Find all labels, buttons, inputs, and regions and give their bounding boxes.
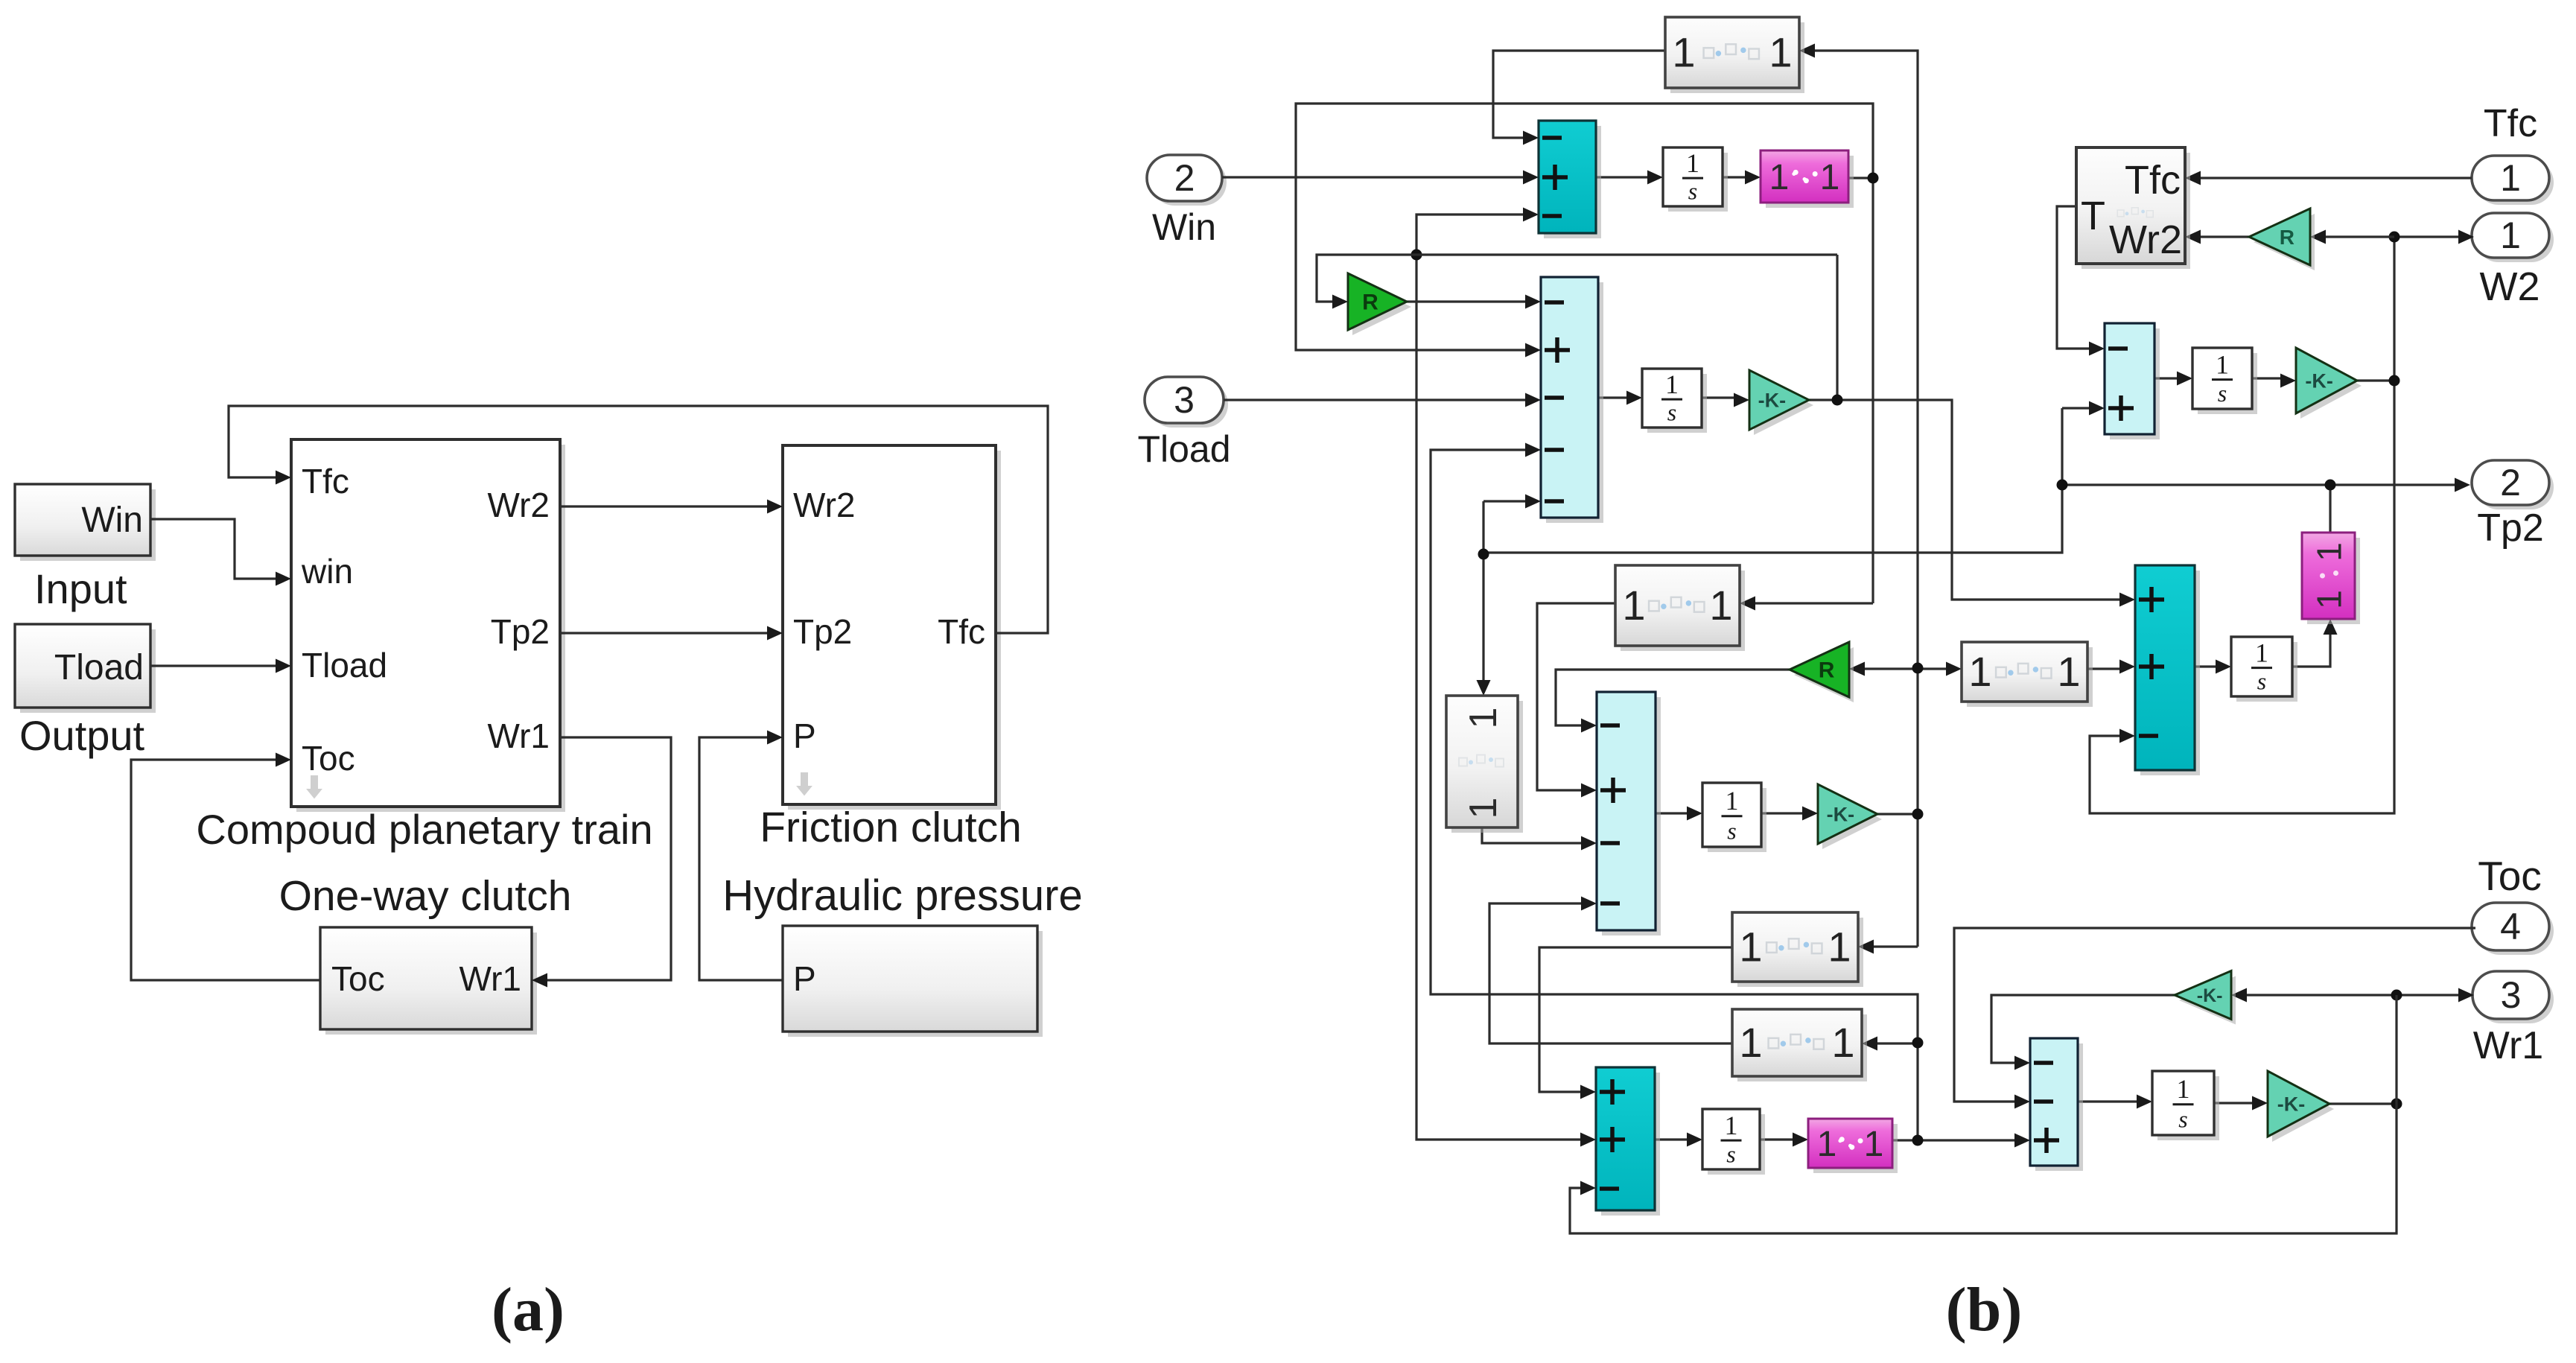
svg-text:1: 1 bbox=[1739, 924, 1762, 970]
wire sum C output to integrator D bbox=[2195, 665, 2219, 667]
svg-text:Tfc: Tfc bbox=[938, 612, 985, 651]
svg-text:Tp2: Tp2 bbox=[2477, 506, 2544, 550]
magenta block M3 vertical bbox=[2307, 538, 2360, 624]
svg-text:-K-: -K- bbox=[2277, 1093, 2305, 1115]
svg-text:1: 1 bbox=[1817, 1125, 1837, 1164]
svg-text:(b): (b) bbox=[1946, 1275, 2023, 1344]
svg-text:win: win bbox=[301, 552, 353, 591]
wire Tp2 planetary to friction clutch bbox=[560, 632, 771, 634]
wire port 1 Tfc to subsystem Tfc input bbox=[2197, 177, 2472, 179]
gain R1 (green, right) bbox=[1352, 279, 1411, 335]
svg-text:1: 1 bbox=[1864, 1125, 1884, 1164]
wire gain -K-5 output to sum F input 1 bbox=[1991, 995, 2175, 1063]
svg-text:Friction clutch: Friction clutch bbox=[760, 804, 1022, 851]
svg-text:1: 1 bbox=[1725, 1111, 1738, 1140]
block Tload (Output source) bbox=[20, 629, 156, 713]
svg-text:One-way clutch: One-way clutch bbox=[279, 872, 572, 920]
sum B (light cyan, 5 inputs) bbox=[1546, 282, 1603, 523]
svg-text:Tfc: Tfc bbox=[2125, 158, 2181, 203]
svg-text:1: 1 bbox=[2057, 648, 2080, 695]
wire -K-1 output up to y342 net and right to sum C input 1 bbox=[1809, 400, 2123, 600]
wire sum A output to integrator bbox=[1596, 176, 1651, 178]
wire P Hydraulic pressure to friction clutch bbox=[699, 737, 783, 980]
svg-text:P: P bbox=[793, 717, 816, 755]
wire TF2 output to sum C input 2 bbox=[2087, 667, 2123, 670]
junction -K-3 output on W1 net bbox=[1912, 809, 1924, 820]
block One-way clutch (Toc/Wr1) bbox=[325, 933, 537, 1035]
wire vertical x1902 down to sum D input 2 bbox=[1416, 255, 1584, 1140]
svg-text:1: 1 bbox=[1739, 1019, 1762, 1066]
svg-text:-K-: -K- bbox=[2305, 369, 2332, 392]
wire sum F output to integrator G bbox=[2078, 1100, 2140, 1102]
junction magenta2 net at TF4 branch bbox=[1912, 1038, 1924, 1049]
junction x3218 top bbox=[2391, 990, 2402, 1001]
sum CC (light cyan, 2 inputs) bbox=[2110, 328, 2160, 439]
wire port Win to sum A bbox=[1222, 176, 1527, 178]
svg-text:Wr2: Wr2 bbox=[793, 486, 856, 524]
wire gain -K-4 output to x3218 bbox=[2329, 1102, 2397, 1105]
junction x3215 top bbox=[2389, 232, 2400, 243]
svg-text:s: s bbox=[2218, 380, 2227, 407]
gain R2 (green, left) bbox=[1794, 647, 1854, 702]
wire Tp2 net x1992 vertical: to sum B input 5 and rotated TF input bbox=[1482, 501, 1484, 684]
svg-text:3: 3 bbox=[2501, 974, 2522, 1016]
svg-text:4: 4 bbox=[2500, 906, 2521, 947]
svg-text:-K-: -K- bbox=[1758, 389, 1786, 411]
magenta block M2 bbox=[1813, 1124, 1898, 1173]
svg-text:1: 1 bbox=[1769, 158, 1790, 197]
svg-text:Wr1: Wr1 bbox=[459, 959, 522, 998]
transfer block TF vertical bbox=[1451, 701, 1523, 833]
gain -K-2 (teal, right) bbox=[2300, 353, 2362, 419]
wire TF mid output down to sum E input 2 bbox=[1537, 603, 1615, 790]
port 3 Tload bbox=[1149, 381, 1228, 428]
wire x3218 to port 3 Wr1 bbox=[2397, 994, 2462, 996]
integrator 1/s D bbox=[2236, 642, 2297, 702]
wire integrator F to magenta 2 bbox=[1760, 1138, 1796, 1140]
wire x3218 to gain -K-5 input bbox=[2243, 994, 2397, 996]
integrator 1/s C bbox=[2198, 353, 2257, 414]
wire TF1 output to sum A input 1 bbox=[1493, 51, 1665, 138]
wire x2515 vertical net: up to y139 then to sum B input 2 bbox=[1296, 104, 1873, 603]
svg-text:Win: Win bbox=[1152, 206, 1216, 248]
svg-text:Toc: Toc bbox=[2478, 853, 2542, 899]
wire sum D output to integrator F bbox=[1655, 1138, 1691, 1140]
svg-text:P: P bbox=[793, 959, 816, 998]
sum E (light cyan, 4 inputs) bbox=[1602, 697, 1661, 935]
wire integrator A to magenta 1 bbox=[1723, 176, 1749, 178]
svg-text:Tload: Tload bbox=[1137, 428, 1230, 470]
wire port 4 Toc to sum F input 2 bbox=[1954, 928, 2475, 1102]
wire gain -K-2 output to x3215 bbox=[2357, 379, 2394, 381]
transfer block TF1 bbox=[1670, 22, 1804, 93]
transfer block TF3 bbox=[1737, 918, 1863, 987]
wire subsystem T output to sum CC input 1 bbox=[2057, 206, 2093, 349]
integrator 1/s F bbox=[1708, 1114, 1765, 1175]
wire Tfc feedback from Friction clutch to planetary Tfc bbox=[229, 406, 1048, 633]
wire y342 horizontal to gain R1 input bbox=[1317, 255, 1837, 302]
junction W1/R2/TF2 bbox=[1912, 663, 1924, 674]
wire sum E output to integrator E bbox=[1656, 812, 1691, 814]
junction Tp2 net x1992 bbox=[1478, 549, 1489, 560]
wire gain R2 output to sum E input 1 bbox=[1556, 670, 1790, 725]
magenta block M1 bbox=[1766, 156, 1854, 208]
transfer block TF mid bbox=[1621, 571, 1745, 651]
svg-text:1: 1 bbox=[1462, 798, 1505, 819]
svg-text:Tp2: Tp2 bbox=[793, 612, 852, 651]
sum D (dark teal, 3 inputs) bbox=[1601, 1073, 1660, 1216]
gain -K-5 (teal, left) bbox=[2179, 976, 2236, 1025]
port 3 Wr1 bbox=[2477, 976, 2554, 1023]
svg-text:1: 1 bbox=[1462, 708, 1505, 729]
svg-text:Tload: Tload bbox=[302, 646, 387, 684]
svg-text:s: s bbox=[2257, 667, 2266, 694]
svg-text:1: 1 bbox=[2255, 638, 2268, 668]
svg-text:1: 1 bbox=[2177, 1074, 2190, 1104]
svg-text:s: s bbox=[1726, 1140, 1735, 1167]
wire vertical x1902 net (y342) to sum A input 3 bbox=[1416, 215, 1527, 255]
svg-text:1: 1 bbox=[2500, 215, 2521, 256]
svg-text:1: 1 bbox=[1665, 369, 1679, 399]
svg-text:1: 1 bbox=[1968, 648, 1991, 695]
wire Tp2 net left from junction to vertical x2769 bbox=[2062, 483, 2330, 486]
svg-text:1: 1 bbox=[2500, 157, 2521, 199]
wire x3218 down and around to sum D input 3 bbox=[1570, 995, 2397, 1233]
subsystem Friction clutch bbox=[788, 451, 1001, 810]
wire W1 net junction to TF2 input bbox=[1918, 667, 1950, 670]
integrator 1/s G bbox=[2157, 1076, 2219, 1140]
svg-text:Input: Input bbox=[34, 565, 127, 612]
svg-text:1: 1 bbox=[1769, 29, 1792, 76]
svg-text:Tload: Tload bbox=[54, 648, 144, 687]
svg-text:R: R bbox=[1362, 290, 1378, 315]
integrator 1/s B bbox=[1647, 374, 1707, 433]
wire gain R1 output to sum B input 1 bbox=[1407, 300, 1529, 302]
svg-text:3: 3 bbox=[1174, 379, 1195, 421]
wire integrator B to gain -K-1 bbox=[1702, 396, 1737, 398]
wire sum C feedback loop from x3215 bbox=[2090, 237, 2394, 813]
integrator 1/s E bbox=[1708, 788, 1766, 852]
svg-text:Win: Win bbox=[81, 501, 143, 540]
svg-text:R: R bbox=[1819, 658, 1835, 683]
wire magenta 2 output net right to sum F input 3 bbox=[1892, 1139, 2018, 1141]
wire x3215 to port W2 bbox=[2394, 235, 2462, 238]
junction x3215 at -K-2 bbox=[2389, 375, 2400, 387]
svg-text:1: 1 bbox=[1831, 1019, 1854, 1066]
wire rotated TF output to sum E input 3 bbox=[1482, 827, 1585, 843]
wire Tp2 net vertical x2769: up to sum CC input 2, down to y742 bbox=[1483, 408, 2062, 553]
wire magenta2 net to TF4 input bbox=[1874, 1042, 1918, 1044]
svg-text:1: 1 bbox=[2310, 542, 2349, 562]
svg-text:W2: W2 bbox=[2480, 264, 2540, 309]
svg-text:s: s bbox=[2178, 1106, 2187, 1133]
wire Tload to planetary bbox=[150, 664, 279, 667]
svg-text:Wr2: Wr2 bbox=[2109, 217, 2182, 262]
svg-text:T: T bbox=[2081, 194, 2105, 238]
wire integrator D to magenta 3 bottom bbox=[2292, 631, 2330, 667]
svg-text:1: 1 bbox=[1672, 29, 1695, 76]
sum C (dark teal, 3 inputs) bbox=[2140, 571, 2200, 775]
svg-text:Output: Output bbox=[19, 712, 145, 759]
junction -K-1 output bbox=[1832, 395, 1843, 406]
block Hydraulic pressure (P) bbox=[788, 931, 1043, 1037]
junction Tp2 at magenta3 bbox=[2325, 480, 2336, 491]
svg-text:(a): (a) bbox=[492, 1275, 565, 1344]
port 1 W2 bbox=[2476, 217, 2554, 262]
svg-text:Toc: Toc bbox=[331, 959, 385, 998]
svg-text:Wr2: Wr2 bbox=[488, 486, 550, 524]
svg-text:1: 1 bbox=[1828, 924, 1851, 970]
svg-text:Wr1: Wr1 bbox=[2473, 1024, 2543, 1067]
integrator 1/s A bbox=[1668, 153, 1728, 212]
wire TF3 output to sum D input 1 bbox=[1539, 947, 1732, 1092]
svg-text:Tfc: Tfc bbox=[302, 462, 349, 501]
wire Toc from One-way clutch to planetary bbox=[131, 760, 320, 980]
svg-text:-K-: -K- bbox=[2197, 985, 2223, 1006]
wire x2515 down to TF mid input bbox=[1752, 602, 1873, 604]
junction magenta2 output bbox=[1912, 1135, 1924, 1146]
svg-text:1: 1 bbox=[2216, 349, 2229, 379]
wire Win to win input bbox=[150, 519, 279, 579]
wire Wr2 planetary to friction clutch bbox=[560, 505, 771, 507]
svg-text:2: 2 bbox=[2500, 462, 2521, 503]
port 2 Tp2 bbox=[2476, 465, 2554, 509]
gain R3 (teal, left) bbox=[2254, 214, 2315, 270]
svg-text:1: 1 bbox=[1820, 158, 1840, 197]
subsystem T(Tfc,Wr2) bbox=[2082, 153, 2190, 269]
svg-text:Hydraulic pressure: Hydraulic pressure bbox=[722, 871, 1083, 920]
svg-text:-K-: -K- bbox=[1827, 803, 1854, 825]
port 2 Win bbox=[1151, 159, 1227, 206]
svg-text:1: 1 bbox=[1686, 148, 1699, 178]
svg-text:1: 1 bbox=[1709, 582, 1732, 629]
wire W1 net to TF3 input bbox=[1870, 945, 1918, 947]
subsystem Compoud planetary train bbox=[296, 445, 565, 812]
wire gain -K-3 output to W1 vertical bbox=[1877, 813, 1918, 815]
svg-text:1: 1 bbox=[2310, 590, 2349, 609]
transfer block TF4 bbox=[1737, 1014, 1867, 1081]
svg-text:Tfc: Tfc bbox=[2484, 102, 2537, 145]
sum A (dark teal, 3 inputs) bbox=[1544, 126, 1601, 238]
wire integrator E to gain -K-3 bbox=[1761, 812, 1806, 814]
wire Tp2 net: magenta3 up to port 2 bbox=[2330, 485, 2458, 533]
svg-text:Wr1: Wr1 bbox=[488, 717, 550, 755]
svg-text:Toc: Toc bbox=[302, 739, 355, 778]
svg-text:Compoud planetary train: Compoud planetary train bbox=[196, 806, 652, 853]
wire integrator C to gain -K-2 bbox=[2252, 377, 2284, 379]
svg-text:1: 1 bbox=[1622, 582, 1645, 629]
svg-text:Tp2: Tp2 bbox=[491, 612, 550, 651]
transfer block TF2 bbox=[1967, 647, 2093, 707]
wire magenta2 net vertical x2575 y1335-1531 bbox=[1431, 450, 1918, 1140]
wire W1 net vertical x2575: -K- to TF1/R/TF2/TF3 bbox=[1811, 51, 1918, 947]
block Win (Input source) bbox=[20, 489, 156, 561]
svg-text:R: R bbox=[2280, 226, 2294, 249]
svg-text:s: s bbox=[1727, 818, 1736, 845]
svg-text:1: 1 bbox=[1726, 786, 1739, 816]
svg-text:s: s bbox=[1688, 178, 1697, 205]
svg-text:2: 2 bbox=[1174, 157, 1195, 199]
wire magenta 1 output to x2515 net bbox=[1848, 177, 1873, 179]
junction magenta1 output on x2515 bbox=[1868, 173, 1879, 184]
junction x1902 y342 bbox=[1411, 250, 1422, 261]
wire sum B output to integrator B bbox=[1598, 396, 1630, 398]
gain -K-3 (teal, right) bbox=[1822, 789, 1882, 849]
svg-text:s: s bbox=[1667, 399, 1676, 426]
sum F (light cyan, 3 inputs) bbox=[2035, 1043, 2083, 1171]
junction Tp2 net x2769 bbox=[2057, 480, 2068, 491]
wire gain R3 output to subsystem Wr2 input bbox=[2197, 235, 2249, 238]
junction x3218 at -K-4 bbox=[2391, 1099, 2402, 1110]
gain -K-1 (teal, right) bbox=[1754, 375, 1813, 435]
gain -K-4 (teal, right) bbox=[2272, 1076, 2334, 1142]
wire TF4 output to sum E input 4 bbox=[1489, 903, 1732, 1043]
wire port Tload to sum B input 3 bbox=[1224, 398, 1529, 401]
wire W1 net junction to gain R2 input bbox=[1861, 667, 1918, 670]
wire x3215 to gain R3 input bbox=[2322, 235, 2394, 238]
wire sum CC output to integrator C bbox=[2154, 377, 2181, 379]
wire Wr1 planetary to One-way clutch bbox=[544, 737, 671, 980]
wire integrator G to gain -K-4 bbox=[2214, 1102, 2256, 1104]
